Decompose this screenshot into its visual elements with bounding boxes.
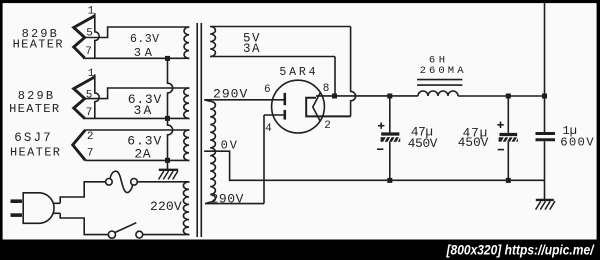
wire fuse to primary winding	[137, 181, 189, 183]
fuse F1	[106, 171, 138, 192]
winding W4 bottom rail	[210, 56, 335, 58]
AC plug P1 prong 2	[11, 213, 23, 217]
junction dot pin8 node	[332, 94, 337, 99]
junction dot C2 bottom	[506, 178, 511, 183]
wire plug top stub	[53, 202, 60, 204]
winding W4 coil	[210, 27, 215, 57]
svg-text:6: 6	[264, 84, 271, 96]
C1 plus sign	[378, 123, 384, 129]
transformer core T1	[197, 23, 201, 237]
wire plug to switch	[60, 213, 108, 234]
junction dot B (W2 bottom)	[165, 116, 170, 121]
connector J2 (829B heater)	[74, 74, 100, 118]
junction dot C1 top	[387, 94, 392, 99]
frame border top	[0, 0, 600, 3]
svg-text:6.3V: 6.3V	[130, 33, 159, 46]
svg-text:HEATER: HEATER	[9, 102, 60, 116]
wire W4 bottom rail riser to tube pin 8	[334, 57, 336, 97]
svg-text:1: 1	[88, 5, 95, 17]
wire primary bottom rail	[143, 234, 190, 236]
wire junction B to C with hop over W3 top rail	[168, 118, 173, 160]
svg-text:HEATER: HEATER	[10, 146, 61, 160]
svg-text:1: 1	[88, 68, 95, 80]
capacitor C2 47u 450V	[499, 96, 518, 180]
ground GND1 (heater common)	[159, 163, 179, 180]
svg-text:4: 4	[265, 123, 272, 135]
wire tube pin 4 lead	[264, 114, 285, 116]
wire pin5 hook to winding W2 top	[85, 88, 190, 99]
svg-text:829B: 829B	[18, 89, 55, 103]
svg-text:2: 2	[87, 131, 94, 143]
svg-text:0V: 0V	[221, 139, 238, 153]
choke L1 6H 260MA	[417, 80, 462, 96]
svg-text:8: 8	[323, 83, 330, 95]
junction dot C3 top	[542, 94, 547, 99]
V1 cathode bracket and pin 2 lead	[306, 98, 350, 117]
wire riser bottom tap to tube pin 4	[263, 115, 265, 204]
transformer winding W4 (5V 3A) top rail	[210, 26, 350, 28]
tube V1 5AR4 envelope	[272, 80, 325, 133]
transformer winding W5 (HV 290-0-290) coil	[210, 101, 215, 202]
wire winding W1 bottom rail (pin 7)	[83, 57, 190, 59]
junction dot C1 bottom	[387, 178, 392, 183]
connector J1 (829B heater)	[74, 13, 99, 58]
transformer winding W2 coil 6.3V 3A	[184, 88, 189, 118]
svg-text:7: 7	[87, 147, 94, 159]
wire junction A to B with hop over W2 top rail	[168, 58, 173, 118]
switch S1	[108, 223, 142, 239]
V1 anode plate (pin 4)	[283, 110, 286, 120]
svg-text:290V: 290V	[211, 192, 244, 207]
V1 filament	[313, 93, 321, 122]
watermark bar	[0, 240, 600, 260]
svg-text:450V: 450V	[408, 136, 438, 151]
frame border right	[597, 0, 600, 240]
ground GND2 (output)	[536, 180, 555, 209]
C1 minus sign	[377, 148, 383, 150]
svg-text:[800x320] https://upic.me/: [800x320] https://upic.me/	[446, 243, 595, 258]
V1 anode plate (pin 6)	[283, 93, 286, 105]
capacitor C1 47u 450V	[381, 96, 401, 180]
capacitor C3 1u 600V	[536, 3, 556, 180]
junction dot A (W1 bottom)	[165, 56, 170, 61]
C2 plus sign	[497, 122, 503, 128]
svg-text:HEATER: HEATER	[13, 38, 64, 52]
junction dot C2 top	[506, 94, 511, 99]
svg-text:7: 7	[85, 46, 92, 58]
svg-text:600V: 600V	[560, 135, 594, 149]
wire pin 8 lead / B+ to choke	[316, 95, 418, 97]
svg-text:2A: 2A	[134, 146, 150, 161]
wire plug bottom stub	[53, 212, 60, 214]
wire 290V top tap to tube pin 6 plate	[204, 100, 285, 102]
wire 0V centre tap to ground bus	[204, 151, 544, 180]
svg-text:3A: 3A	[243, 42, 260, 56]
frame border left	[0, 0, 3, 240]
wire 290V bottom tap rail	[205, 202, 264, 204]
svg-text:7: 7	[86, 107, 93, 119]
svg-text:290V: 290V	[213, 86, 247, 101]
wire winding W3 top rail (pin 2)	[85, 129, 189, 131]
svg-text:6SJ7: 6SJ7	[14, 131, 52, 145]
transformer winding W6 (220V primary) coil	[183, 182, 189, 235]
wire pin5 hook to winding W1 top	[85, 27, 190, 38]
svg-text:220V: 220V	[150, 199, 182, 214]
wire W4 top rail riser to tube pin 2 with hop over B+	[351, 27, 356, 117]
junction dot C (W3 bottom)	[165, 158, 170, 163]
transformer winding W3 coil 6.3V 2A	[184, 130, 189, 160]
transformer winding W1 coil 6.3V 3A	[184, 27, 189, 58]
wire plug to fuse	[60, 182, 105, 204]
wire B+ after choke	[458, 95, 545, 97]
wire winding W2 bottom rail (pin 7)	[83, 117, 190, 119]
wire winding W3 bottom rail (pin 7)	[85, 159, 189, 161]
C2 minus sign	[498, 149, 504, 151]
svg-text:450V: 450V	[458, 135, 489, 150]
connector J3 (6SJ7 heater)	[73, 130, 86, 160]
AC plug P1 prong 1	[11, 199, 23, 203]
AC plug P1 body	[23, 193, 54, 224]
svg-text:5: 5	[86, 90, 93, 102]
svg-text:2: 2	[324, 120, 331, 132]
